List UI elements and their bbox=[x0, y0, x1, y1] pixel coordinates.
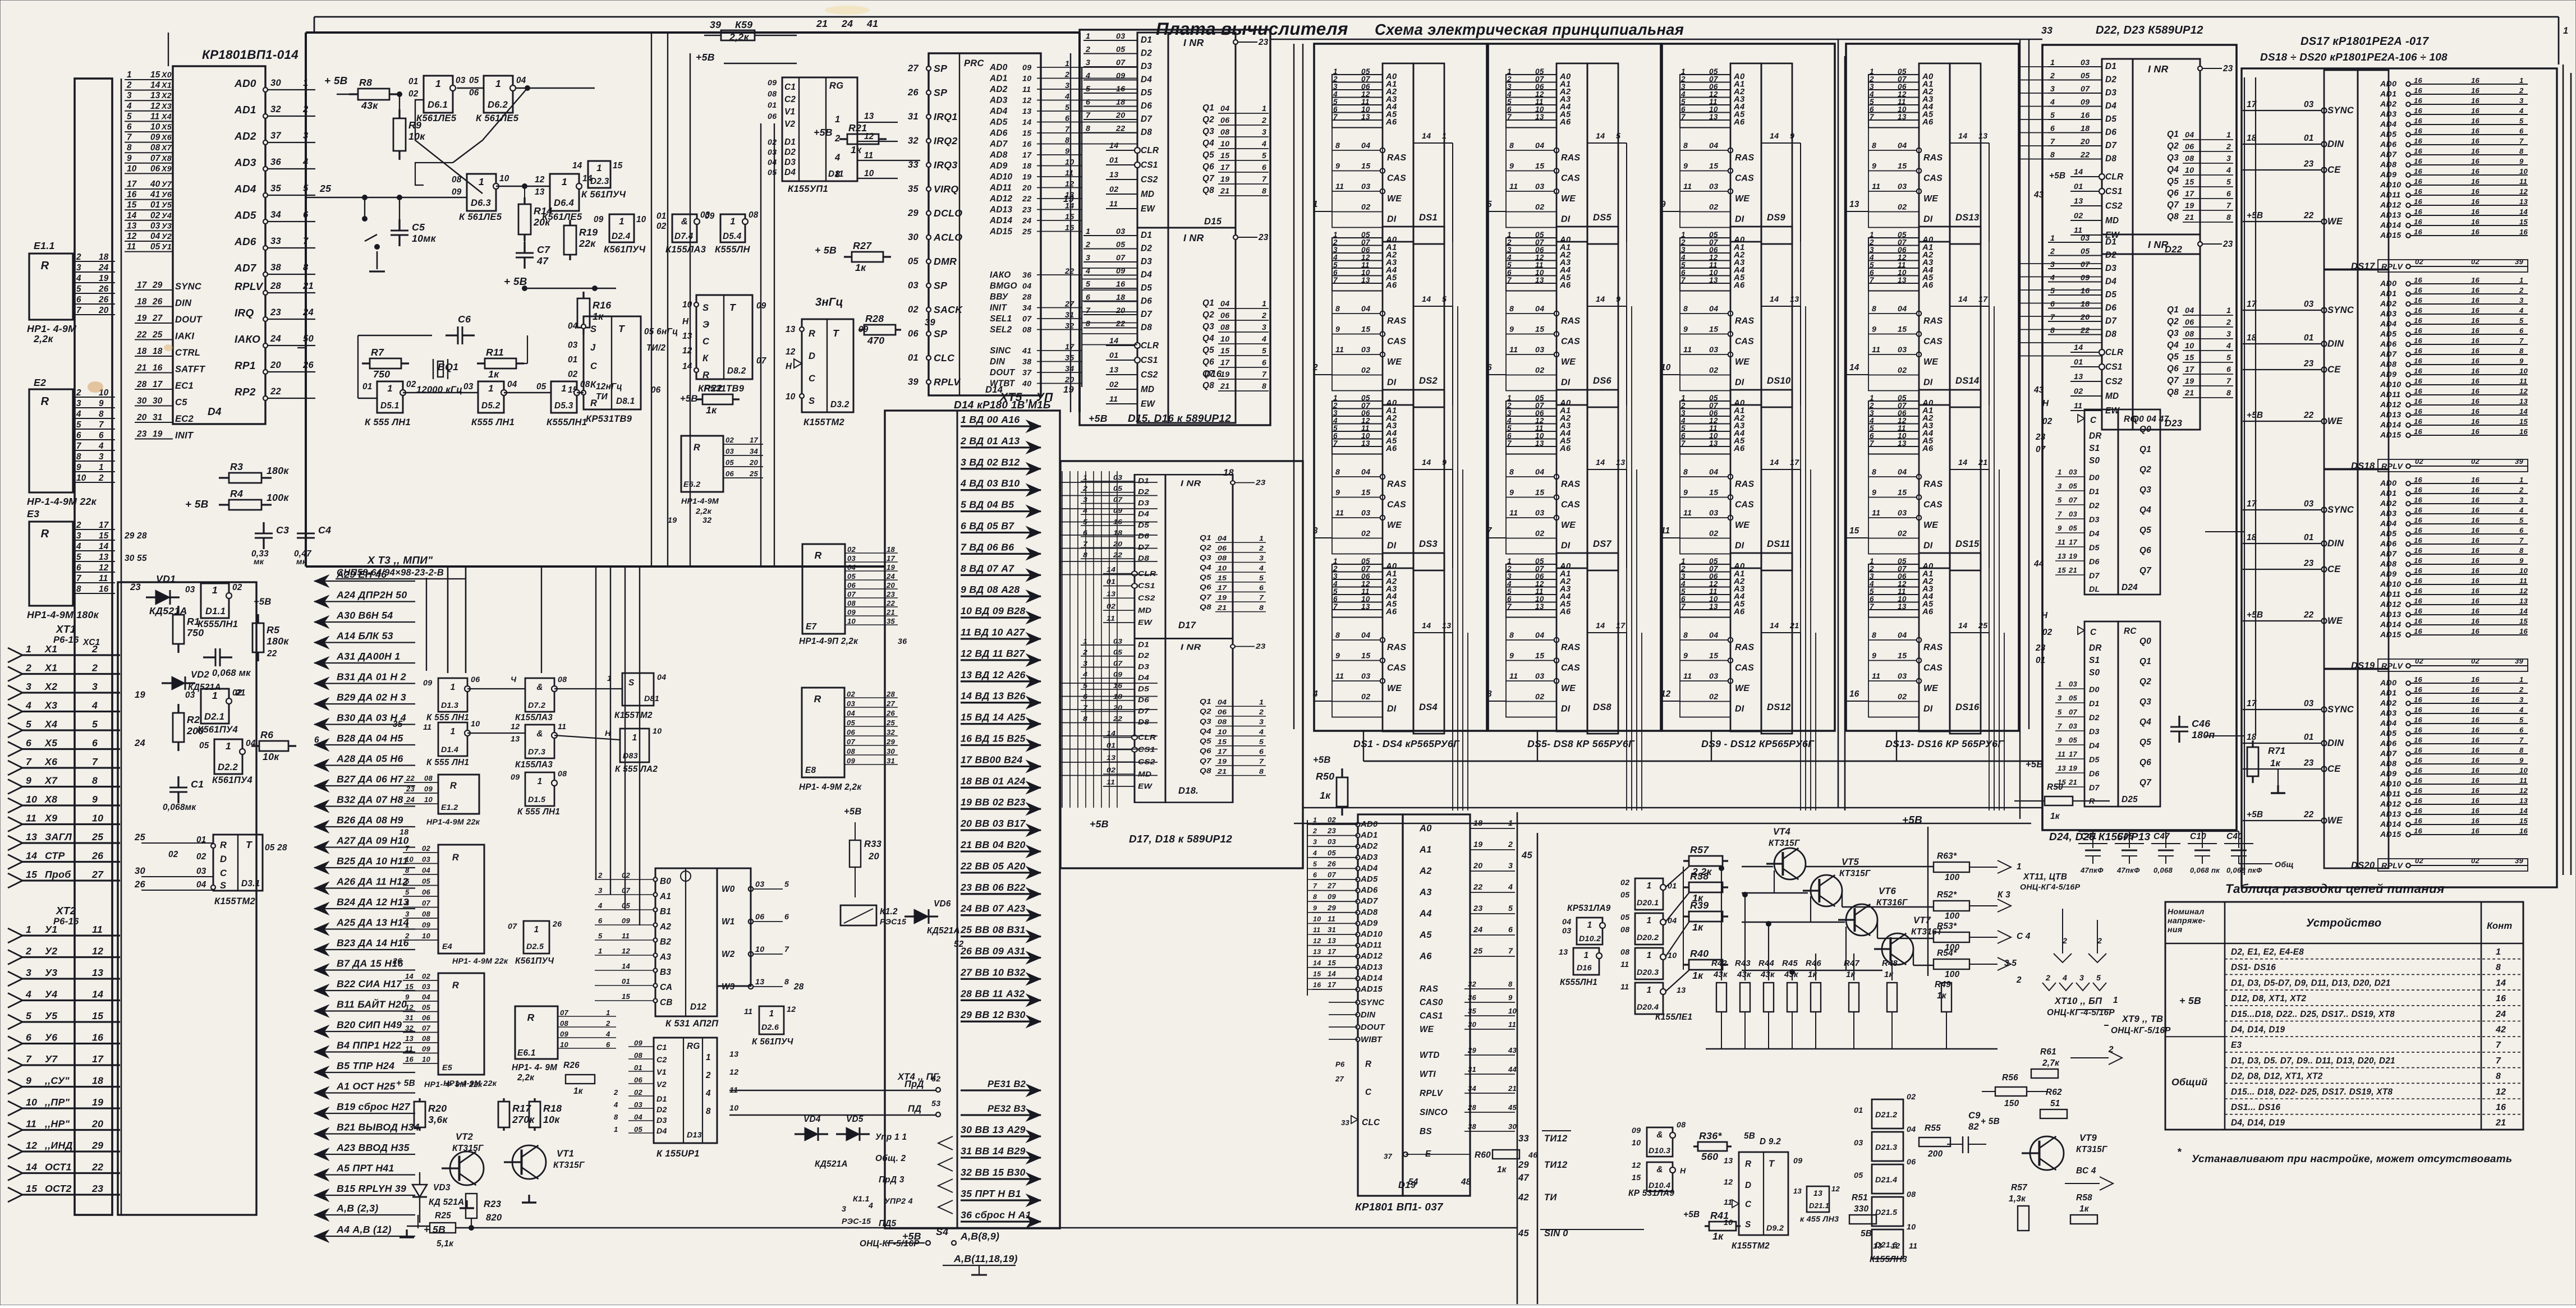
svg-text:3: 3 bbox=[2058, 482, 2062, 490]
svg-text:8: 8 bbox=[1313, 893, 1317, 901]
svg-text:24: 24 bbox=[270, 334, 281, 344]
svg-text:04: 04 bbox=[516, 76, 526, 85]
svg-text:Е6.2: Е6.2 bbox=[683, 480, 700, 489]
svg-text:1: 1 bbox=[1587, 920, 1592, 930]
svg-text:R53*: R53* bbox=[1937, 922, 1957, 931]
svg-text:В15 RPLYН 39: В15 RPLYН 39 bbox=[337, 1183, 406, 1194]
svg-text:10: 10 bbox=[786, 392, 796, 402]
svg-text:06: 06 bbox=[469, 88, 479, 98]
svg-text:DS5: DS5 bbox=[1593, 213, 1612, 223]
svg-text:D2: D2 bbox=[784, 148, 796, 157]
svg-text:РЕ32 В3: РЕ32 В3 bbox=[988, 1104, 1026, 1114]
svg-text:А30 В6Н 54: А30 В6Н 54 bbox=[336, 610, 393, 621]
svg-text:КР531ТВ9: КР531ТВ9 bbox=[586, 414, 632, 424]
svg-text:5,1к: 5,1к bbox=[437, 1239, 454, 1249]
svg-text:08: 08 bbox=[634, 1051, 643, 1060]
svg-text:25: 25 bbox=[91, 831, 104, 842]
svg-text:01: 01 bbox=[1854, 1106, 1863, 1115]
svg-text:R57: R57 bbox=[1690, 844, 1709, 855]
svg-text:27: 27 bbox=[91, 869, 104, 880]
svg-text:29: 29 bbox=[1467, 1046, 1477, 1054]
svg-text:07: 07 bbox=[756, 356, 767, 366]
svg-text:К155ТМ2: К155ТМ2 bbox=[214, 896, 255, 906]
svg-text:21: 21 bbox=[886, 608, 895, 616]
resistor network E1.1 bbox=[29, 254, 73, 320]
svg-text:7: 7 bbox=[76, 574, 82, 583]
svg-text:1: 1 bbox=[2017, 862, 2022, 872]
svg-text:К155ЛА3: К155ЛА3 bbox=[515, 713, 553, 722]
svg-text:1: 1 bbox=[614, 1125, 618, 1134]
svg-text:29: 29 bbox=[1327, 904, 1337, 912]
svg-text:К1.1: К1.1 bbox=[853, 1195, 870, 1204]
resistor network E7 bbox=[802, 544, 845, 634]
vertical bus pair mid bbox=[760, 123, 761, 567]
svg-text:10: 10 bbox=[1907, 1223, 1916, 1232]
svg-text:V1: V1 bbox=[656, 1068, 667, 1077]
svg-text:11: 11 bbox=[744, 1007, 752, 1016]
svg-text:03: 03 bbox=[847, 554, 856, 563]
svg-text:5: 5 bbox=[1442, 295, 1447, 304]
svg-text:23: 23 bbox=[136, 430, 147, 439]
resistor R19 bbox=[569, 220, 571, 225]
svg-text:11: 11 bbox=[1620, 960, 1629, 969]
svg-text:INIT: INIT bbox=[990, 303, 1007, 313]
svg-text:37: 37 bbox=[1384, 1152, 1393, 1160]
svg-text:28: 28 bbox=[270, 281, 281, 291]
svg-text:PRC: PRC bbox=[964, 58, 985, 68]
svg-text:4: 4 bbox=[1508, 883, 1513, 892]
svg-text:Ч: Ч bbox=[511, 675, 517, 684]
svg-text:А4: А4 bbox=[1419, 909, 1432, 919]
svg-text:КР531ЛА9: КР531ЛА9 bbox=[1567, 904, 1611, 913]
svg-text:13: 13 bbox=[1873, 1242, 1882, 1251]
svg-text:А5 ПРТ Н41: А5 ПРТ Н41 bbox=[336, 1163, 394, 1174]
svg-text:03: 03 bbox=[847, 699, 856, 708]
svg-text:08: 08 bbox=[422, 910, 431, 918]
svg-text:08: 08 bbox=[1620, 948, 1629, 957]
svg-text:&: & bbox=[536, 729, 543, 739]
svg-text:RPLV: RPLV bbox=[235, 281, 264, 293]
svg-text:25: 25 bbox=[1473, 947, 1483, 956]
svg-text:02: 02 bbox=[908, 305, 919, 315]
svg-text:Т: Т bbox=[1769, 1159, 1775, 1169]
svg-text:К 561ПУЧ: К 561ПУЧ bbox=[752, 1037, 794, 1047]
svg-text:13: 13 bbox=[729, 1050, 738, 1059]
svg-text:12: 12 bbox=[92, 946, 103, 957]
bus driver D18 bbox=[1081, 638, 1266, 803]
svg-text:18: 18 bbox=[1022, 162, 1031, 171]
svg-text:Н: Н bbox=[682, 317, 689, 326]
svg-text:02: 02 bbox=[768, 138, 777, 147]
inverter D1.5 bbox=[525, 772, 554, 806]
svg-text:1к: 1к bbox=[1320, 790, 1331, 801]
svg-text:08: 08 bbox=[150, 143, 160, 153]
register D24 bbox=[2084, 409, 2118, 595]
svg-text:D8.2: D8.2 bbox=[727, 366, 746, 376]
svg-text:45: 45 bbox=[1518, 1228, 1529, 1238]
svg-text:22 ВВ 05 А20: 22 ВВ 05 А20 bbox=[960, 860, 1026, 872]
svg-text:15: 15 bbox=[405, 983, 414, 991]
svg-text:D7.2: D7.2 bbox=[528, 701, 545, 710]
svg-text:30 55: 30 55 bbox=[125, 554, 147, 563]
svg-text:10: 10 bbox=[1661, 363, 1671, 372]
svg-text:ХТ5 ,, УП: ХТ5 ,, УП bbox=[999, 391, 1053, 404]
svg-text:D: D bbox=[1745, 1181, 1751, 1190]
svg-text:11 ВД 10 А27: 11 ВД 10 А27 bbox=[961, 627, 1025, 638]
resistor network E8 bbox=[802, 688, 844, 777]
svg-text:7: 7 bbox=[127, 133, 132, 142]
svg-text:12: 12 bbox=[1724, 1178, 1733, 1187]
svg-text:А24 ДПР2Н 50: А24 ДПР2Н 50 bbox=[336, 589, 407, 601]
svg-text:С: С bbox=[2090, 416, 2097, 425]
bus driver D17 bbox=[1081, 474, 1266, 639]
svg-text:У7: У7 bbox=[162, 180, 172, 189]
svg-text:10: 10 bbox=[1313, 915, 1321, 923]
svg-text:07: 07 bbox=[2036, 445, 2046, 454]
svg-text:+5В: +5В bbox=[844, 807, 862, 817]
svg-text:100: 100 bbox=[1945, 911, 1960, 921]
svg-text:10: 10 bbox=[422, 932, 431, 940]
NAND D2.1 bbox=[201, 689, 229, 724]
register D25 bbox=[2084, 621, 2118, 807]
svg-text:К 561ЛЕ5: К 561ЛЕ5 bbox=[476, 113, 519, 123]
svg-text:31 ВВ 14 В29: 31 ВВ 14 В29 bbox=[961, 1145, 1026, 1157]
svg-text:10: 10 bbox=[1508, 1007, 1517, 1015]
svg-text:40: 40 bbox=[1022, 380, 1031, 389]
svg-text:Х0: Х0 bbox=[161, 71, 172, 80]
svg-text:30: 30 bbox=[137, 397, 147, 406]
svg-text:Х6: Х6 bbox=[44, 756, 57, 767]
svg-text:42: 42 bbox=[2495, 1025, 2506, 1035]
svg-text:47: 47 bbox=[536, 255, 549, 266]
svg-text:25: 25 bbox=[152, 330, 163, 340]
svg-text:4: 4 bbox=[76, 274, 81, 283]
svg-text:4: 4 bbox=[1312, 849, 1317, 857]
svg-text:IRQ3: IRQ3 bbox=[934, 159, 957, 171]
svg-text:2,2к: 2,2к bbox=[33, 333, 53, 344]
svg-text:2: 2 bbox=[1312, 363, 1318, 372]
svg-text:R43: R43 bbox=[1735, 959, 1751, 968]
svg-text:04: 04 bbox=[1562, 918, 1571, 927]
svg-text:ТИ12: ТИ12 bbox=[1544, 1160, 1568, 1170]
svg-text:К555 ЛН1: К555 ЛН1 bbox=[471, 417, 515, 427]
svg-text:02: 02 bbox=[408, 89, 419, 99]
svg-text:2: 2 bbox=[76, 388, 81, 398]
svg-text:АD13: АD13 bbox=[989, 205, 1013, 215]
svg-text:8: 8 bbox=[92, 775, 98, 786]
svg-text:12: 12 bbox=[1022, 96, 1031, 105]
svg-text:20: 20 bbox=[270, 360, 281, 370]
svg-text:У6: У6 bbox=[162, 191, 172, 200]
register D22 bbox=[2048, 58, 2233, 254]
svg-text:5В: 5В bbox=[1744, 1131, 1755, 1141]
svg-text:07: 07 bbox=[422, 899, 431, 908]
bus driver D15/D16 outline bbox=[1080, 30, 1270, 425]
inverter D1.3 bbox=[438, 678, 467, 712]
svg-text:2: 2 bbox=[91, 643, 98, 655]
svg-text:Е3: Е3 bbox=[2231, 1040, 2242, 1050]
svg-text:470: 470 bbox=[867, 335, 884, 346]
svg-text:,,СУ": ,,СУ" bbox=[44, 1075, 70, 1086]
svg-text:03: 03 bbox=[725, 447, 734, 455]
svg-text:7: 7 bbox=[1508, 947, 1513, 956]
svg-text:R46: R46 bbox=[1806, 959, 1822, 968]
flip-flop D3.1 bbox=[213, 835, 263, 891]
svg-text:R50: R50 bbox=[1316, 771, 1334, 782]
svg-text:4: 4 bbox=[605, 1030, 610, 1038]
svg-text:АD2: АD2 bbox=[1360, 842, 1378, 851]
svg-text:6: 6 bbox=[76, 295, 81, 305]
svg-text:7: 7 bbox=[2496, 1056, 2501, 1066]
svg-text:41: 41 bbox=[1022, 347, 1031, 356]
svg-text:АD13: АD13 bbox=[1360, 963, 1383, 972]
svg-text:С7: С7 bbox=[537, 244, 550, 255]
svg-text:2: 2 bbox=[91, 662, 98, 674]
svg-text:D5: D5 bbox=[2089, 756, 2100, 764]
svg-text:SP: SP bbox=[934, 328, 947, 339]
svg-text:08: 08 bbox=[768, 90, 777, 99]
svg-text:13: 13 bbox=[786, 325, 796, 334]
svg-text:НР1-4-9М 22к: НР1-4-9М 22к bbox=[426, 818, 480, 827]
register block outline D22-D25 bbox=[2042, 45, 2237, 830]
svg-text:17: 17 bbox=[750, 436, 759, 444]
svg-text:R18: R18 bbox=[543, 1103, 562, 1114]
wire left edge vertical bbox=[168, 33, 169, 66]
svg-text:6: 6 bbox=[784, 913, 789, 922]
svg-text:11: 11 bbox=[1909, 1242, 1917, 1251]
svg-text:16: 16 bbox=[99, 584, 109, 594]
svg-text:820: 820 bbox=[486, 1213, 502, 1223]
svg-text:17: 17 bbox=[127, 179, 137, 189]
svg-text:Е1.2: Е1.2 bbox=[441, 803, 458, 812]
svg-text:19: 19 bbox=[1022, 173, 1031, 182]
svg-text:05: 05 bbox=[768, 168, 777, 177]
svg-text:C: C bbox=[702, 337, 710, 347]
svg-text:26: 26 bbox=[886, 709, 896, 717]
svg-text:10: 10 bbox=[847, 617, 856, 625]
svg-text:21 ВВ 04 В20: 21 ВВ 04 В20 bbox=[960, 839, 1026, 850]
svg-text:Проб: Проб bbox=[45, 869, 71, 880]
bus driver D17/D18 outline bbox=[1060, 461, 1303, 868]
svg-text:DS1: DS1 bbox=[1419, 213, 1438, 223]
svg-text:05: 05 bbox=[422, 1003, 431, 1012]
svg-text:ПД5: ПД5 bbox=[879, 1219, 897, 1228]
NAND D2.2 bbox=[214, 739, 242, 774]
svg-text:3: 3 bbox=[1065, 81, 1069, 90]
svg-text:R4: R4 bbox=[230, 488, 243, 499]
svg-text:Общ: Общ bbox=[2275, 860, 2294, 869]
svg-text:АD15: АD15 bbox=[1360, 985, 1383, 994]
svg-text:11: 11 bbox=[864, 151, 873, 160]
svg-text:D2.6: D2.6 bbox=[761, 1023, 779, 1032]
flip-flop D3.1 input wires bbox=[141, 842, 213, 844]
svg-text:47пкФ: 47пкФ bbox=[2080, 866, 2104, 874]
svg-text:D17, D18 к 589UР12: D17, D18 к 589UР12 bbox=[1129, 833, 1232, 845]
svg-text:18: 18 bbox=[92, 1075, 103, 1086]
svg-text:03: 03 bbox=[463, 382, 474, 392]
svg-text:08: 08 bbox=[422, 1034, 431, 1043]
svg-text:10: 10 bbox=[26, 794, 37, 805]
svg-text:7: 7 bbox=[76, 306, 82, 315]
svg-text:13: 13 bbox=[26, 831, 37, 842]
svg-text:Х4: Х4 bbox=[161, 112, 172, 121]
svg-text:01: 01 bbox=[634, 1063, 642, 1072]
svg-text:Е1.1: Е1.1 bbox=[34, 240, 55, 251]
svg-text:09: 09 bbox=[768, 79, 777, 87]
svg-text:СА: СА bbox=[660, 983, 672, 992]
resistor R38 bbox=[1683, 886, 1689, 888]
svg-text:26: 26 bbox=[91, 850, 103, 862]
register D11 bbox=[782, 77, 857, 181]
svg-text:АD3: АD3 bbox=[234, 157, 256, 169]
svg-text:10: 10 bbox=[76, 473, 86, 483]
svg-text:С2: С2 bbox=[656, 1056, 667, 1065]
svg-text:5: 5 bbox=[92, 719, 98, 730]
svg-text:КТ315Г: КТ315Г bbox=[1769, 839, 1800, 848]
IC D19 body bbox=[1358, 814, 1403, 1196]
transistor VT4 bbox=[1774, 848, 1806, 879]
ROM chip DS18 bbox=[2243, 270, 2528, 472]
svg-text:11: 11 bbox=[1328, 914, 1335, 923]
svg-text:32: 32 bbox=[702, 516, 711, 525]
NAND D7.2 bbox=[525, 678, 554, 712]
svg-text:42: 42 bbox=[1518, 1192, 1529, 1203]
svg-text:У7: У7 bbox=[45, 1053, 58, 1065]
svg-text:05: 05 bbox=[1854, 1171, 1863, 1180]
ROM chip DS20 bbox=[2243, 669, 2528, 871]
svg-text:12: 12 bbox=[535, 175, 545, 185]
svg-text:13: 13 bbox=[2058, 764, 2067, 772]
svg-text:SP: SP bbox=[934, 63, 947, 74]
RAM chip DS16 bbox=[1868, 553, 1989, 734]
svg-text:24: 24 bbox=[302, 307, 314, 317]
svg-text:01: 01 bbox=[568, 355, 578, 365]
svg-text:15 ВД 14 А25: 15 ВД 14 А25 bbox=[961, 712, 1026, 723]
svg-text:Q2: Q2 bbox=[2139, 677, 2151, 687]
svg-text:R6: R6 bbox=[260, 729, 273, 740]
svg-text:30: 30 bbox=[153, 397, 163, 406]
module outline box bbox=[306, 31, 1080, 34]
svg-text:17: 17 bbox=[99, 521, 109, 530]
svg-text:+5В: +5В bbox=[254, 597, 272, 607]
svg-text:03: 03 bbox=[2069, 510, 2078, 518]
svg-text:D5.4: D5.4 bbox=[723, 232, 742, 241]
svg-text:09: 09 bbox=[511, 773, 520, 782]
svg-text:31: 31 bbox=[1328, 925, 1336, 934]
svg-text:D2: D2 bbox=[2089, 713, 2100, 722]
svg-text:В28 ДА 04 Н5: В28 ДА 04 Н5 bbox=[337, 733, 403, 744]
svg-text:02: 02 bbox=[634, 1088, 643, 1097]
svg-text:21: 21 bbox=[302, 281, 314, 291]
svg-text:07: 07 bbox=[560, 1008, 569, 1017]
svg-text:17: 17 bbox=[1022, 151, 1032, 160]
svg-text:12нГц: 12нГц bbox=[596, 382, 622, 392]
svg-text:43к: 43к bbox=[361, 100, 378, 111]
svg-text:22: 22 bbox=[1064, 267, 1074, 276]
svg-text:22: 22 bbox=[267, 649, 277, 658]
svg-text:2: 2 bbox=[705, 1071, 711, 1080]
svg-text:29: 29 bbox=[886, 738, 896, 746]
svg-text:14: 14 bbox=[405, 972, 414, 980]
svg-text:1: 1 bbox=[127, 70, 132, 80]
svg-text:16 ВД 15 В25: 16 ВД 15 В25 bbox=[961, 733, 1026, 744]
svg-text:SEL1: SEL1 bbox=[990, 314, 1012, 324]
svg-text:5: 5 bbox=[1487, 200, 1492, 209]
svg-text:1: 1 bbox=[1647, 881, 1652, 891]
svg-text:D: D bbox=[809, 351, 815, 361]
svg-text:03: 03 bbox=[768, 148, 777, 157]
svg-text:330: 330 bbox=[1854, 1204, 1869, 1214]
svg-text:1: 1 bbox=[495, 78, 501, 89]
svg-text:ОНЦ-КГ-5/16Р: ОНЦ-КГ-5/16Р bbox=[2111, 1026, 2171, 1035]
svg-text:R23: R23 bbox=[484, 1199, 501, 1209]
svg-text:36: 36 bbox=[270, 157, 281, 167]
svg-text:03: 03 bbox=[196, 867, 206, 876]
svg-text:4: 4 bbox=[25, 989, 31, 1000]
svg-text:14: 14 bbox=[127, 211, 137, 220]
svg-text:Е4: Е4 bbox=[442, 942, 452, 951]
svg-text:26: 26 bbox=[98, 295, 109, 305]
svg-text:1к: 1к bbox=[2050, 812, 2060, 821]
svg-text:03: 03 bbox=[1854, 1139, 1863, 1148]
svg-text:Е6.1: Е6.1 bbox=[517, 1048, 536, 1058]
svg-text:D15...D18, D22.. D25, DS17.. D: D15...D18, D22.. D25, DS17.. DS19, ХТ8 bbox=[2231, 1010, 2395, 1019]
svg-text:10: 10 bbox=[864, 169, 874, 178]
svg-text:14: 14 bbox=[92, 989, 103, 1000]
svg-text:13: 13 bbox=[755, 978, 764, 987]
svg-text:А28 ДА 05 Н6: А28 ДА 05 Н6 bbox=[336, 753, 403, 764]
svg-text:43: 43 bbox=[2033, 190, 2044, 200]
svg-text:Q5: Q5 bbox=[2139, 738, 2151, 747]
svg-text:R: R bbox=[41, 260, 49, 272]
svg-text:1: 1 bbox=[2058, 468, 2062, 476]
svg-text:DS14: DS14 bbox=[1955, 376, 1979, 386]
svg-text:1к: 1к bbox=[488, 369, 499, 380]
svg-text:D7: D7 bbox=[2089, 784, 2100, 793]
svg-text:05: 05 bbox=[634, 1125, 643, 1134]
svg-text:R: R bbox=[41, 528, 49, 540]
svg-text:D19: D19 bbox=[1398, 1180, 1416, 1190]
svg-text:R39: R39 bbox=[1690, 900, 1709, 911]
resistor R9 bbox=[398, 109, 400, 118]
svg-text:0,068мк: 0,068мк bbox=[163, 803, 196, 812]
svg-text:R55: R55 bbox=[1925, 1123, 1941, 1133]
svg-text:5: 5 bbox=[1616, 132, 1621, 141]
svg-text:Q7: Q7 bbox=[2139, 566, 2152, 575]
power table frame bbox=[2165, 902, 2523, 1130]
svg-text:10: 10 bbox=[422, 1055, 431, 1063]
svg-text:03: 03 bbox=[2069, 722, 2078, 730]
svg-text:4: 4 bbox=[868, 1201, 873, 1210]
svg-text:D12: D12 bbox=[690, 1002, 706, 1012]
svg-text:R: R bbox=[527, 1012, 534, 1023]
svg-text:05: 05 bbox=[2069, 694, 2078, 702]
svg-text:14: 14 bbox=[26, 1162, 37, 1173]
svg-text:4: 4 bbox=[705, 1089, 711, 1098]
svg-text:06: 06 bbox=[847, 581, 856, 589]
svg-text:2,2к: 2,2к bbox=[695, 507, 712, 516]
svg-text:R5: R5 bbox=[267, 624, 280, 635]
svg-text:R7: R7 bbox=[371, 347, 384, 358]
svg-text:18: 18 bbox=[887, 545, 896, 554]
svg-text:22: 22 bbox=[91, 1162, 103, 1173]
svg-text:+5В: +5В bbox=[2049, 171, 2065, 181]
svg-text:06: 06 bbox=[422, 1014, 431, 1022]
svg-text:S4: S4 bbox=[936, 1226, 948, 1237]
svg-text:D1: D1 bbox=[2089, 487, 2100, 496]
svg-text:1к: 1к bbox=[2270, 758, 2281, 768]
svg-text:Т: Т bbox=[246, 839, 253, 850]
